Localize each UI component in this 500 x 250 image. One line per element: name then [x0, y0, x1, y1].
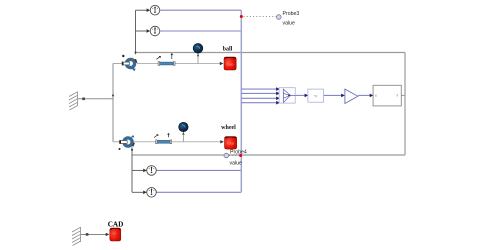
wire: signal sensor3 out	[156, 169, 241, 171]
wire: frame line top (y=52.5)	[136, 52, 406, 54]
probe P4 red dot	[239, 154, 242, 157]
svg-text:CAD: CAD	[227, 62, 234, 66]
wire: upper chain bar to ball box	[174, 63, 221, 65]
tick arrow on vertical	[112, 93, 115, 96]
K block U2	[308, 89, 324, 102]
wire: gain to actuator block	[358, 94, 370, 96]
svg-text:fl: fl	[375, 94, 377, 98]
arrowhead into ball box	[220, 62, 224, 65]
svg-text:CAD: CAD	[112, 233, 119, 237]
wire: upper chain joint left	[113, 63, 123, 65]
wire: signal sensor1 out (blue)	[160, 9, 242, 11]
arrowhead gain	[341, 94, 345, 98]
arrowhead sensor4	[143, 191, 147, 195]
sensor S3 (gauge)	[147, 166, 157, 176]
wire: feed to sensor1	[136, 9, 148, 11]
svg-text:value: value	[230, 160, 243, 166]
svg-text:CAD: CAD	[108, 220, 124, 228]
wire: feed to sensor3	[132, 169, 144, 171]
svg-text:wheel: wheel	[221, 125, 236, 131]
arrowhead mux3	[276, 97, 280, 101]
wire: signal sensor2 out	[160, 30, 242, 32]
ground G1 (left wall)	[69, 92, 78, 111]
wire: left vertical between joints (x=113)	[112, 64, 114, 142]
actuator block U4	[373, 85, 401, 106]
svg-text:*K: *K	[314, 93, 319, 98]
arrowhead sensor1	[147, 8, 151, 12]
arrowhead actuator	[370, 94, 374, 98]
ground G2 (CAD wall)	[72, 227, 81, 246]
bar B1 (upper rod)	[157, 54, 176, 66]
wire: mux input 3	[241, 97, 276, 99]
svg-text:Probe3: Probe3	[283, 11, 300, 17]
svg-text:value: value	[283, 20, 296, 26]
wire: CAD ground line bottom left	[81, 233, 106, 235]
wire: K block to gain	[324, 94, 342, 96]
wire: lower chain joint left	[113, 141, 122, 143]
wire: mux input 1	[241, 88, 276, 90]
arrowhead mux4	[276, 101, 280, 105]
wire: ground to frame split (y=98.8)	[78, 98, 113, 100]
probe P4 circle	[224, 153, 229, 158]
bar B2 (lower rod)	[154, 133, 172, 143]
connector square on CAD wire	[86, 233, 89, 236]
mux U1	[279, 88, 295, 103]
wire: lower chain bar to wheel box	[171, 141, 221, 143]
connector square on ground wire	[82, 98, 85, 101]
gain U3 (triangle)	[345, 89, 358, 103]
wire: feed to sensor2	[136, 30, 148, 32]
CAD shape wheel (red box)	[225, 137, 237, 150]
body M1 (ball mass)	[193, 44, 203, 64]
wire: mux input 2	[241, 92, 276, 94]
revolute joint J2 (lower)	[119, 135, 135, 150]
arrowhead into wheel box	[220, 140, 224, 143]
CAD shape ball (red box)	[224, 57, 236, 70]
wire: actuator to frame right	[401, 94, 405, 96]
wire: signal sensor4 out	[156, 191, 241, 193]
arrowhead mux1	[276, 87, 280, 91]
sensor S2 (gauge)	[150, 26, 160, 36]
wire: sensor feed vertical bottom (x=132)	[131, 147, 133, 192]
wire: signal bus vertical (x=241.3)	[240, 10, 242, 192]
wire: upper chain joint to bar	[137, 63, 159, 65]
probe P4 dotted line	[229, 155, 239, 157]
svg-text:Probe4: Probe4	[230, 150, 247, 156]
wire: frame line bottom (y=155)	[132, 154, 405, 156]
junction dot	[131, 149, 133, 151]
wire: mux input 4	[241, 102, 276, 104]
arrowhead into CAD box	[106, 233, 110, 236]
revolute joint J1 (upper)	[122, 55, 138, 71]
svg-text:CAD: CAD	[227, 142, 234, 146]
probe P3 red dot	[240, 15, 243, 18]
svg-text:fl: fl	[397, 94, 399, 98]
wire: lower chain joint to bar	[134, 141, 157, 143]
wire: mux to K block	[295, 94, 305, 96]
probe P3 dotted line	[244, 16, 277, 18]
wire: sensor feed vertical top (x=135.5)	[135, 10, 137, 54]
arrowhead K block	[305, 94, 309, 98]
body M2 (wheel mass)	[179, 122, 188, 142]
probe P3 circle	[277, 15, 282, 20]
wire: feed to sensor4	[132, 191, 144, 193]
svg-text:ball: ball	[223, 47, 233, 53]
wire: frame line right (x=405)	[404, 53, 406, 156]
tick at feed bottom	[134, 52, 136, 55]
arrowhead mux2	[276, 92, 280, 96]
arrowhead sensor2	[147, 29, 151, 33]
arrowhead sensor3	[143, 169, 147, 173]
sensor S4 (gauge)	[147, 188, 157, 198]
CAD shape bottom (red box)	[110, 228, 121, 241]
sensor S1 (gauge)	[150, 5, 160, 15]
